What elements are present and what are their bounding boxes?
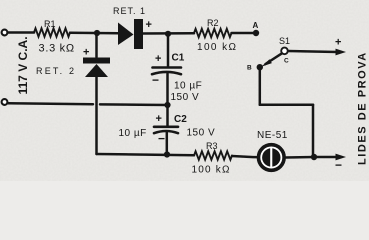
svg-text:R3: R3 (206, 141, 218, 151)
wire: mid rail left (8, 102, 93, 105)
node: junction C2 bottom (164, 151, 170, 157)
svg-text:S1: S1 (279, 36, 290, 46)
svg-text:100 kΩ: 100 kΩ (192, 165, 231, 176)
svg-text:3.3 kΩ: 3.3 kΩ (39, 43, 75, 55)
resistor R2 (194, 29, 232, 37)
wire (232, 156, 258, 157)
node: junction R1/RET1/RET2 (94, 30, 100, 36)
svg-text:100 kΩ: 100 kΩ (197, 42, 237, 53)
wire (286, 156, 314, 159)
svg-text:+: + (146, 19, 152, 31)
svg-text:−: − (158, 132, 165, 146)
svg-text:+: + (156, 113, 162, 125)
svg-text:C: C (284, 58, 289, 65)
svg-text:RET. 2: RET. 2 (36, 66, 76, 76)
node: junction bottom right (311, 154, 317, 160)
svg-text:+: + (83, 47, 89, 59)
terminal A (253, 30, 259, 36)
wire: down to bottom rail (312, 105, 315, 157)
terminal: bottom AC input (2, 99, 8, 105)
wire (232, 32, 254, 35)
wire (143, 32, 194, 35)
svg-text:NE-51: NE-51 (257, 130, 288, 141)
wire: minus output with arrowhead (314, 156, 337, 159)
svg-text:C1: C1 (172, 53, 185, 64)
svg-text:+: + (335, 37, 341, 49)
svg-text:117 V C.A.: 117 V C.A. (16, 36, 30, 94)
svg-text:150 V: 150 V (187, 128, 216, 139)
terminal B (257, 64, 263, 70)
node: junction C1/C2 midpoint (164, 102, 170, 108)
svg-text:LIDES DE PROVA: LIDES DE PROVA (357, 51, 369, 165)
svg-text:+: + (155, 53, 161, 65)
wire (8, 31, 34, 34)
svg-text:A: A (253, 21, 259, 30)
svg-text:10 µF: 10 µF (174, 81, 202, 92)
wire: RET2 anode down to bottom rail (95, 77, 98, 154)
svg-text:150 V: 150 V (171, 92, 200, 103)
resistor R3 (194, 151, 232, 159)
wire: plus output with arrowhead (288, 51, 337, 52)
terminal: top AC input (2, 30, 8, 36)
capacitor C2 (166, 105, 169, 126)
switch S1 (281, 48, 288, 55)
wire: mid rail right (100, 103, 168, 106)
svg-text:R1: R1 (44, 19, 56, 29)
svg-text:RET. 1: RET. 1 (113, 6, 146, 16)
diode RET.2 (95, 33, 98, 57)
wire: B down (259, 67, 262, 105)
wire: across (260, 104, 313, 107)
svg-text:−: − (152, 73, 159, 87)
node: junction C1 top (165, 31, 171, 37)
diode RET.1 (118, 19, 143, 49)
svg-text:C2: C2 (174, 114, 187, 125)
wire: bottom rail left (97, 154, 195, 155)
svg-text:−: − (335, 158, 342, 172)
wire (70, 31, 118, 34)
capacitor C1 (167, 34, 170, 67)
neon lamp NE-51 (259, 145, 285, 171)
svg-text:B: B (247, 65, 252, 72)
svg-text:10 µF: 10 µF (119, 128, 147, 139)
svg-text:R2: R2 (207, 18, 219, 28)
resistor R1 (34, 28, 70, 36)
